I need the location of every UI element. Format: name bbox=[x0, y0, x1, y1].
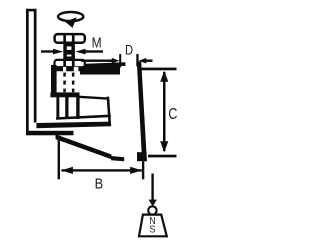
right wall bbox=[137, 61, 147, 161]
C bottom arrowhead bbox=[160, 141, 168, 152]
weight body bbox=[139, 215, 167, 237]
screw shaft through head bbox=[63, 35, 66, 43]
svg-text:B: B bbox=[95, 175, 104, 192]
D right extension line bbox=[136, 54, 138, 66]
clamp jaw wedge bbox=[36, 122, 110, 129]
screw pressure pad bbox=[50, 92, 79, 97]
thread white gaps bbox=[67, 46, 72, 50]
screw head bbox=[55, 34, 85, 43]
vertical rod right line bbox=[34, 9, 37, 123]
C top arrowhead bbox=[160, 71, 168, 82]
D left extension line bbox=[119, 54, 121, 67]
bottom leg bar bbox=[26, 131, 74, 136]
svg-text:D: D bbox=[125, 42, 133, 57]
hidden screw dashes right bbox=[72, 73, 75, 77]
hidden screw dashes left bbox=[63, 73, 66, 77]
load arrowhead bbox=[149, 200, 157, 207]
D dimension right arrow bbox=[139, 58, 147, 64]
vertical rod left line bbox=[26, 9, 29, 134]
rotation arrow ellipse bbox=[58, 12, 83, 21]
weight ring bbox=[148, 206, 156, 214]
B right arrowhead bbox=[130, 167, 142, 174]
B left extension line bbox=[58, 138, 60, 180]
threaded shaft block bbox=[63, 43, 75, 61]
washer under screw bbox=[55, 60, 85, 67]
bottom slant jaw underside bbox=[56, 134, 112, 159]
svg-text:M: M bbox=[92, 34, 102, 51]
B dimension line bbox=[61, 169, 141, 171]
B right extension line bbox=[142, 162, 144, 180]
svg-text:S: S bbox=[150, 224, 156, 236]
svg-text:C: C bbox=[168, 106, 177, 123]
shaft lines through washer bbox=[63, 60, 66, 66]
beam flange bottom edge bbox=[56, 115, 111, 120]
bottom lip bbox=[111, 156, 124, 161]
M dimension right arrow bbox=[75, 49, 85, 55]
right wall foot bbox=[137, 152, 147, 161]
rib bars under pad bbox=[56, 97, 59, 118]
C bottom extension line bbox=[148, 155, 177, 158]
C top extension line bbox=[141, 68, 177, 71]
clamp left wall bbox=[51, 65, 57, 94]
C dimension line bbox=[163, 72, 166, 151]
beam flange end face bbox=[107, 97, 112, 127]
B left arrowhead bbox=[61, 167, 73, 174]
beam flange top edge bbox=[79, 96, 108, 100]
screw hole white gaps in plate bbox=[63, 67, 66, 71]
vertical rod top cap bbox=[26, 9, 37, 12]
rotation arrowhead bbox=[65, 17, 77, 28]
M dimension left arrow bbox=[41, 50, 56, 52]
D dimension left line bbox=[81, 60, 113, 62]
clamp top plate bbox=[51, 62, 125, 74]
load arrow line bbox=[151, 174, 153, 201]
